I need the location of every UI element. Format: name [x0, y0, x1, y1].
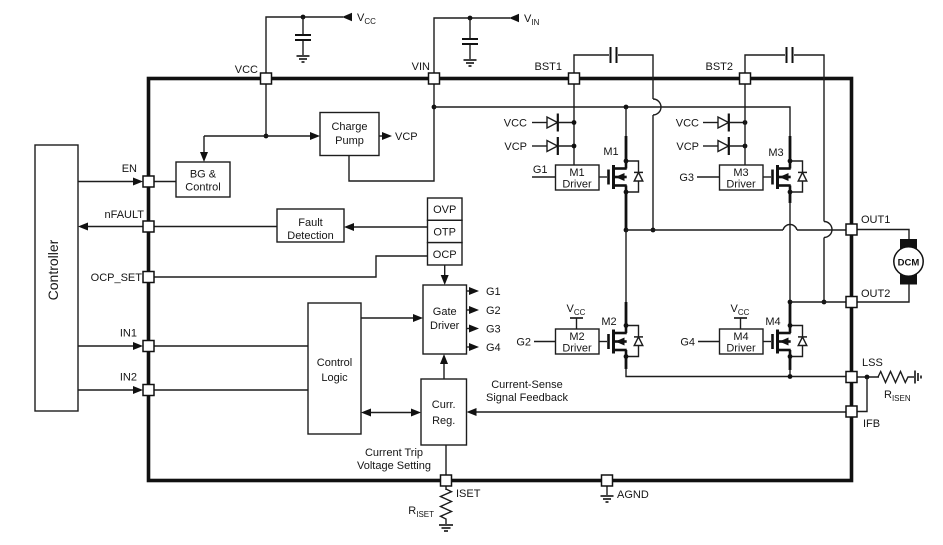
- node BST2 return at OUT2: [822, 300, 827, 305]
- svg-text:IFB: IFB: [863, 418, 880, 430]
- wire hop OUT1 over M3 source line: [783, 224, 797, 230]
- node OUT2 at M3 source: [788, 300, 793, 305]
- svg-text:IN1: IN1: [120, 328, 137, 340]
- wire VIN pin to external rail: [434, 18, 510, 73]
- svg-text:M1: M1: [603, 146, 618, 158]
- node M1 drain tap on VIN rail: [624, 105, 629, 110]
- arrow into gate driver bottom: [440, 354, 448, 364]
- arrow G4: [469, 343, 479, 351]
- wire VCC pin to external rail: [266, 17, 343, 73]
- svg-text:VCC: VCC: [504, 118, 527, 130]
- wire G1 to M1 driver: [532, 176, 556, 178]
- ground VIN cap: [464, 60, 477, 66]
- block BG & Control: [176, 162, 230, 197]
- svg-text:Driver: Driver: [726, 343, 756, 355]
- wire OUT2 line: [790, 301, 846, 303]
- block Fault Detection: [277, 209, 344, 242]
- wire IFB pin external to LSS junction: [857, 377, 867, 412]
- svg-text:LSS: LSS: [862, 357, 883, 369]
- capacitor BST2 bootstrap: [787, 47, 793, 63]
- controller box: [35, 145, 78, 411]
- wire VIN rail corner thick to M3 drain: [789, 136, 792, 161]
- arrow EN into pin: [133, 178, 143, 186]
- wire charge pump from VIN: [349, 84, 434, 181]
- wire BST2 cap return: [794, 55, 824, 222]
- svg-text:OTP: OTP: [433, 227, 456, 239]
- wire stack to gate driver: [444, 265, 446, 275]
- wire M4 drain thick: [789, 302, 792, 326]
- block M2 driver: [556, 329, 600, 354]
- svg-text:Driver: Driver: [430, 320, 460, 332]
- svg-text:Gate: Gate: [433, 306, 457, 318]
- svg-text:OCP: OCP: [433, 249, 457, 261]
- svg-text:BG &: BG &: [190, 169, 217, 181]
- wire M3 source to OUT2 node: [789, 192, 792, 203]
- ground AGND: [601, 496, 614, 502]
- svg-text:VCC: VCC: [235, 64, 258, 76]
- block Gate Driver: [423, 285, 467, 354]
- block OCP: [428, 243, 463, 265]
- wire G4 to M4 driver: [698, 341, 720, 343]
- arrow into charge pump: [310, 132, 320, 140]
- wire VIN rail to M3 drain: [434, 107, 790, 136]
- transistor M3: [773, 159, 808, 195]
- arrow IN2 into pin: [133, 386, 143, 394]
- wire LSS pin to sense resistor: [857, 376, 879, 378]
- pin OUT1: [846, 224, 857, 235]
- svg-text:OVP: OVP: [433, 204, 456, 216]
- svg-text:Curr.: Curr.: [432, 399, 456, 411]
- wire BST1 return to OUT1 node: [652, 115, 654, 230]
- arrow into curr reg right: [467, 408, 477, 416]
- wire OUT2 pin to motor: [857, 284, 909, 302]
- svg-text:VCP: VCP: [676, 141, 699, 153]
- pin LSS: [846, 372, 857, 383]
- pin nFAULT: [143, 221, 154, 232]
- wire M3 driver to gate: [763, 176, 771, 178]
- pin AGND: [602, 475, 613, 486]
- svg-text:G4: G4: [486, 342, 501, 354]
- svg-text:Current Trip: Current Trip: [365, 447, 423, 459]
- wire curr reg to gate driver: [443, 364, 445, 379]
- pin IN1: [143, 341, 154, 352]
- wire IN1 from controller: [78, 345, 134, 347]
- node LSS external junction: [865, 375, 870, 380]
- wire IN2 pin to control logic: [154, 389, 308, 391]
- arrow to VCC supply: [342, 13, 352, 21]
- svg-text:Charge: Charge: [331, 121, 367, 133]
- svg-text:G2: G2: [516, 337, 531, 349]
- wire BST2 return to OUT2 node: [823, 238, 825, 303]
- wire M4 driver to gate: [763, 341, 771, 343]
- arrow IN1 into pin: [133, 342, 143, 350]
- arrow into control logic: [361, 409, 371, 417]
- wire G3 output: [467, 328, 470, 330]
- wire G2 to M2 driver: [534, 341, 556, 343]
- block OVP: [428, 198, 463, 220]
- svg-text:Control: Control: [185, 182, 220, 194]
- svg-text:M4: M4: [765, 316, 780, 328]
- svg-text:OUT2: OUT2: [861, 288, 890, 300]
- svg-text:M4: M4: [733, 331, 748, 343]
- capacitor VCC bypass: [295, 17, 311, 55]
- motor DCM body: [894, 247, 923, 276]
- wire BST1 cap return: [618, 55, 653, 99]
- wire IN1 pin to control logic: [154, 345, 308, 347]
- wire M2 drain thick: [625, 302, 628, 326]
- node VIN rail junction: [432, 105, 437, 110]
- arrow into fault detection: [344, 223, 354, 231]
- svg-text:OUT1: OUT1: [861, 214, 890, 226]
- svg-text:G3: G3: [486, 324, 501, 336]
- arrow into gate driver left: [413, 314, 423, 322]
- wire IFB to curr reg: [476, 411, 846, 413]
- arrow G2: [469, 306, 479, 314]
- arrow into gate driver: [441, 275, 449, 285]
- wire M2 drain from OUT1: [625, 230, 627, 303]
- resistor RISEN: [878, 372, 914, 383]
- wire AGND pin to ground: [606, 486, 608, 495]
- arrow VCP output: [382, 132, 392, 140]
- svg-text:VCP: VCP: [504, 141, 527, 153]
- svg-text:EN: EN: [122, 163, 137, 175]
- svg-text:Reg.: Reg.: [432, 415, 455, 427]
- svg-text:G1: G1: [486, 286, 501, 298]
- svg-text:M3: M3: [768, 147, 783, 159]
- transistor M1: [609, 159, 644, 195]
- pin ISET: [441, 475, 452, 486]
- svg-text:Pump: Pump: [335, 135, 364, 147]
- pin EN: [143, 176, 154, 187]
- node BST1 return at OUT1: [651, 228, 656, 233]
- svg-text:Controller: Controller: [45, 239, 61, 300]
- block Curr. Reg.: [421, 379, 467, 445]
- node VIN external junction: [468, 16, 473, 21]
- pin IFB: [846, 406, 857, 417]
- wire BST2 bootstrap loop: [745, 55, 785, 73]
- pin VIN: [429, 73, 440, 84]
- wire EN pin to BG block: [154, 181, 176, 183]
- svg-text:IN2: IN2: [120, 372, 137, 384]
- svg-text:AGND: AGND: [617, 489, 649, 501]
- node VCC internal junction: [264, 134, 269, 139]
- svg-text:VCC: VCC: [676, 118, 699, 130]
- svg-text:M2: M2: [569, 331, 584, 343]
- wire M4 source to LSS line: [789, 357, 792, 371]
- pin OUT2: [846, 297, 857, 308]
- wire EN from controller: [78, 181, 134, 183]
- wire M1 source to OUT1 node: [625, 192, 628, 230]
- svg-text:BST1: BST1: [534, 61, 562, 73]
- wire M1 driver to gate: [599, 176, 607, 178]
- wire VCC pin into IC: [265, 84, 267, 136]
- block OTP: [428, 220, 463, 242]
- block Control Logic: [308, 303, 361, 434]
- wire control logic to gate driver: [361, 317, 413, 319]
- wire control logic to curr reg bidirectional: [371, 412, 411, 414]
- ground RISEN: [915, 371, 921, 384]
- svg-text:G2: G2: [486, 305, 501, 317]
- wire OUT1 line left part: [626, 229, 783, 231]
- arrow into curr reg: [411, 409, 421, 417]
- svg-text:OCP_SET: OCP_SET: [91, 272, 143, 284]
- arrow G3: [469, 325, 479, 333]
- wire G4 output: [467, 346, 470, 348]
- wire BST1 pin into IC: [573, 84, 575, 165]
- IC boundary: [149, 79, 852, 481]
- svg-text:Current-Sense: Current-Sense: [491, 379, 563, 391]
- motor brush bottom: [900, 274, 917, 285]
- ground RISET: [439, 525, 453, 531]
- arrow nFAULT into controller: [78, 223, 88, 231]
- wire M2 source to LSS line: [625, 357, 628, 370]
- svg-text:Control: Control: [317, 357, 352, 369]
- node M4 source on LSS line: [788, 374, 793, 379]
- wire OUT1 line right part: [797, 229, 846, 231]
- wire hop BST1 return over VIN rail: [653, 99, 661, 115]
- wire curr reg to ISET pin: [445, 445, 447, 475]
- wire VCC rail to charge pump: [204, 135, 310, 137]
- svg-text:Fault: Fault: [298, 217, 322, 229]
- wire M3 source thin to OUT2: [789, 202, 791, 302]
- wire OCP_SET pin to OCP block: [154, 256, 427, 277]
- svg-text:Driver: Driver: [562, 343, 592, 355]
- svg-text:BST2: BST2: [705, 61, 733, 73]
- wire VCP output: [379, 135, 382, 137]
- arrow to VIN supply: [509, 14, 519, 22]
- wire M1 drain from rail: [625, 107, 627, 137]
- node OUT1 at M1 source: [624, 228, 629, 233]
- wire ISET pin to RISET: [445, 486, 447, 490]
- block M4 driver: [720, 329, 764, 354]
- wire down to BG block: [203, 136, 205, 153]
- svg-text:ISET: ISET: [456, 488, 481, 500]
- resistor RISET: [441, 489, 452, 524]
- svg-text:Logic: Logic: [321, 372, 348, 384]
- wire M1 drain vertical: [625, 136, 628, 161]
- svg-text:G4: G4: [680, 337, 695, 349]
- svg-text:DCM: DCM: [898, 258, 920, 269]
- wire M2 source corner: [626, 368, 846, 377]
- wire G1 output: [467, 290, 470, 292]
- wire G2 output: [467, 309, 470, 311]
- node VCC external junction: [301, 15, 306, 20]
- svg-text:Detection: Detection: [287, 230, 333, 242]
- capacitor VIN bypass: [462, 18, 478, 59]
- arrow into BG block: [200, 152, 208, 162]
- svg-text:M1: M1: [569, 167, 584, 179]
- transistor M2: [609, 323, 644, 359]
- pin BST1: [569, 73, 580, 84]
- pin VCC: [261, 73, 272, 84]
- wire OUT1 pin to motor: [857, 230, 909, 241]
- wire M4 source thin: [789, 369, 791, 377]
- wire BST1 bootstrap loop: [574, 55, 609, 73]
- wire BST2 pin into IC: [744, 84, 746, 165]
- block M3 driver: [720, 165, 764, 190]
- pin OCP_SET: [143, 272, 154, 283]
- svg-text:nFAULT: nFAULT: [104, 209, 144, 221]
- svg-text:M3: M3: [733, 167, 748, 179]
- wire hop BST2 return over OUT1 line: [824, 222, 832, 238]
- capacitor BST1 bootstrap: [611, 47, 617, 63]
- arrow G1: [469, 287, 479, 295]
- ground VCC cap: [297, 56, 310, 62]
- wire OTP to fault detection: [354, 226, 427, 228]
- transistor M4: [773, 323, 808, 359]
- wire nFAULT from fault detection to controller: [88, 226, 277, 228]
- svg-text:M2: M2: [601, 316, 616, 328]
- wire IN2 from controller: [78, 389, 134, 391]
- block Charge Pump: [320, 113, 379, 156]
- svg-text:VCP: VCP: [395, 131, 418, 143]
- wire M2 driver to gate: [599, 341, 607, 343]
- svg-text:G1: G1: [533, 164, 548, 176]
- block M1 driver: [556, 165, 600, 190]
- svg-text:Driver: Driver: [726, 179, 756, 191]
- wire G3 to M3 driver: [697, 176, 720, 178]
- svg-text:Signal Feedback: Signal Feedback: [486, 392, 568, 404]
- svg-text:Voltage Setting: Voltage Setting: [357, 460, 431, 472]
- pin BST2: [740, 73, 751, 84]
- pin IN2: [143, 385, 154, 396]
- svg-text:G3: G3: [679, 172, 694, 184]
- svg-text:Driver: Driver: [562, 179, 592, 191]
- motor brush top: [900, 239, 917, 250]
- svg-text:VIN: VIN: [412, 61, 430, 73]
